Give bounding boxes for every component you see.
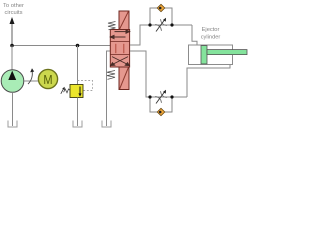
spring RV1	[64, 89, 70, 93]
DV1 bottom solenoid box	[119, 67, 129, 90]
svg-text:M: M	[43, 72, 52, 87]
DV1 top solenoid box	[119, 11, 129, 30]
rotation arrow	[28, 68, 34, 84]
node FC1 right	[170, 23, 173, 26]
label Ejector cylinder	[201, 27, 221, 41]
wire valve A port to flow line	[130, 25, 192, 45]
wire relief branch	[77, 46, 79, 85]
wire valve B port to flow line	[130, 51, 187, 97]
directional valve DV1 body	[110, 30, 129, 68]
node junction relief branch	[76, 44, 80, 48]
throttle FC2	[155, 91, 167, 103]
wire bottom bypass loop	[150, 97, 172, 112]
node junction pump/arrow	[10, 44, 14, 48]
pump P1	[1, 70, 24, 93]
tank T3	[102, 121, 111, 128]
wire relief to tank	[77, 98, 79, 127]
svg-text:cylinder: cylinder	[201, 35, 221, 41]
wire A riser to cylinder cap	[192, 25, 197, 45]
throttle FC1 arrow	[156, 18, 166, 32]
DV1 bottom spring	[107, 71, 115, 80]
DV1 bottom section crossed arrows	[111, 57, 130, 66]
svg-text:Ejector: Ejector	[202, 27, 220, 33]
DV1 top spring	[108, 22, 116, 30]
DV1 top section arrows	[110, 30, 129, 39]
shaft pump-motor	[24, 80, 39, 82]
cylinder barrel	[189, 45, 233, 65]
svg-text:circuits: circuits	[4, 10, 22, 16]
check valve CV2	[157, 108, 165, 115]
svg-text:To other: To other	[3, 3, 24, 9]
DV1 centre section marks	[116, 44, 124, 53]
DV1 section dividers	[110, 41, 129, 43]
label: To other circuits	[3, 3, 24, 16]
motor M1	[38, 69, 57, 88]
check valve CV1	[157, 4, 165, 11]
cylinder piston	[201, 46, 207, 64]
node FC1 left	[148, 23, 151, 26]
arrow to other circuits	[10, 17, 15, 46]
tank T2	[73, 121, 82, 128]
wire pump riser	[11, 46, 13, 71]
node FC2 right	[170, 95, 173, 98]
wire B riser to cylinder rod side	[187, 65, 230, 98]
pilot line RV1 (dashed)	[78, 81, 93, 91]
wire valve T port to tank	[107, 51, 111, 126]
tank T1	[8, 121, 17, 128]
wire pump to tank	[12, 92, 14, 126]
wire top bypass loop	[150, 8, 172, 25]
throttle FC1	[155, 19, 167, 31]
wire main pressure line	[12, 45, 110, 47]
cylinder rod	[207, 50, 247, 55]
relief valve RV1	[70, 85, 83, 98]
node FC2 left	[148, 95, 151, 98]
adjust arrow RV1	[61, 87, 65, 94]
throttle FC2 arrow	[156, 90, 166, 104]
